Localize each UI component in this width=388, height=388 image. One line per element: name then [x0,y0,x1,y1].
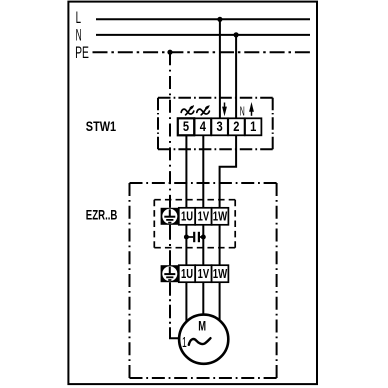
border frame [68,2,317,385]
svg-text:3: 3 [217,118,223,134]
svg-text:1U: 1U [181,266,193,281]
capacitor between 1U and 1V wires [184,232,206,242]
terminal strip 1: 1W [212,208,229,225]
terminal 4 [195,118,211,135]
wire 1W strip1 to strip2 [219,225,221,265]
svg-text:STW1: STW1 [86,118,117,134]
svg-text:2: 2 [233,118,239,134]
svg-text:1V: 1V [198,266,210,281]
wire N line [96,34,310,36]
terminal strip 2: ground terminal [161,265,179,282]
svg-text:PE: PE [75,44,89,62]
svg-text:1W: 1W [213,208,228,223]
wire from N down to terminal 2 [235,35,237,119]
svg-text:1U: 1U [181,208,193,223]
node junction dot on PE [167,50,172,55]
sensor symbol over terminal 4 [197,105,210,115]
terminal strip 1: ground terminal [161,208,179,225]
terminal strip 2: 1U [179,265,195,282]
arrow down at terminal 3 [222,103,227,117]
svg-text:N: N [76,27,82,45]
svg-text:N: N [240,103,245,118]
terminal strip 2: 1W [212,265,229,282]
wire PE strip1 to strip2 (dash-dot) [169,225,171,265]
terminal 1 [245,118,261,135]
terminal 3 [211,118,227,135]
node junction dot on N [234,32,239,37]
svg-text:5: 5 [183,118,189,134]
wire PE down to ground terminal (dash-dot) [169,52,171,208]
terminal 5 [178,118,194,135]
wire 1U strip2 to motor [185,282,187,321]
svg-text:M: M [198,318,206,334]
terminal 2 [228,118,244,135]
wire 1U strip1 to strip2 [185,225,187,265]
svg-text:EZR..B: EZR..B [86,208,118,223]
wire L line [96,18,310,20]
svg-text:1W: 1W [213,266,228,281]
motor M1~ [179,315,228,364]
wire PE elbow to motor [170,336,179,338]
wire terminal 4 down to 1V [202,135,204,208]
svg-text:1V: 1V [198,208,210,223]
svg-text:1: 1 [250,118,256,134]
enclosure STW1 (dash-dot box) [158,98,273,150]
svg-text:L: L [76,9,81,27]
node junction dot on L [217,17,222,22]
terminal strip 2: 1V [195,265,211,282]
terminal strip 1: 1V [195,208,211,225]
wire 1V strip2 to motor [202,282,204,315]
arrow up at terminal 1 [249,102,254,116]
sensor symbol over terminal 5 [181,105,194,115]
wire from L down to terminal 3 [219,19,221,119]
svg-text:1: 1 [182,334,187,351]
enclosure EZR..B (dash-dot box) [130,183,277,378]
wire 1V strip1 to strip2 [202,225,204,265]
inner dashed sub-box [154,200,235,248]
wire PE strip2 down (dash-dot) [169,282,171,337]
terminal strip 1: 1U [179,208,195,225]
wire 1W strip2 to motor [219,282,221,320]
wire terminal 5 down to 1U [185,135,187,208]
wire terminal 2 jog down to 1W [220,135,237,208]
wire PE line (dash-dot) [93,51,311,53]
svg-text:4: 4 [200,118,206,134]
